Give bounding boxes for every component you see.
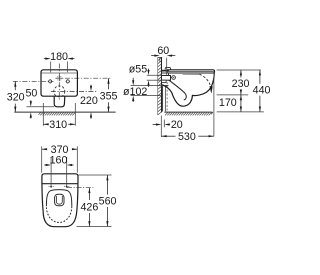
front vertical centerline — [58, 64, 60, 101]
fixing bracket block — [162, 73, 169, 76]
bowl inner hook line — [169, 80, 186, 100]
svg-text:ø55: ø55 — [129, 64, 147, 76]
dim o55 lower ext line — [147, 79, 163, 81]
fixing bracket bar — [162, 70, 170, 72]
dim 20 hatch-edge extension line — [163, 120, 165, 128]
front centerline B (fixing holes level, left) — [13, 80, 54, 82]
front centerline C (outlet circle level) — [51, 90, 98, 92]
svg-text:310: 310 — [49, 119, 67, 131]
seat hinge cap — [165, 68, 170, 70]
top reference ext line — [217, 69, 261, 71]
dim 560 line — [106, 175, 108, 195]
dim o102 lower ext line — [131, 95, 163, 97]
bowl opening oval (solid top) — [46, 190, 71, 207]
wall left face — [157, 58, 159, 116]
dim o55 upper ext line — [147, 74, 163, 76]
front top inlet cross — [56, 75, 63, 81]
dim 60 right arrow — [171, 55, 175, 57]
svg-text:426: 426 — [80, 201, 98, 213]
dim 60 left extension line — [159, 58, 161, 62]
dim 180 left extension line — [50, 62, 52, 73]
outlet shelf line (o102 top) — [162, 85, 168, 87]
dim o102 upper ext line — [131, 85, 164, 87]
outlet pipe outer line — [162, 86, 164, 112]
dim 426 hinge dash-dot ext line — [67, 187, 93, 189]
outlet pipe inner line — [164, 87, 166, 112]
front right fixing hole — [66, 79, 71, 84]
front floor hatch — [39, 112, 76, 115]
dim 50 lower arrow — [30, 116, 32, 118]
dim 180 right arrow — [70, 58, 74, 60]
svg-text:170: 170 — [219, 97, 237, 109]
flush distributor outer — [55, 194, 64, 206]
bowl rim line under seat — [183, 73, 200, 75]
top ext line for 560 — [79, 174, 112, 176]
dim 50 upper arrow — [30, 100, 32, 102]
inlet pipe block (o55) — [162, 76, 171, 81]
front centerline A (top inlet level) — [56, 77, 111, 79]
svg-text:440: 440 — [253, 84, 271, 96]
svg-text:ø102: ø102 — [123, 86, 147, 98]
dim 180 right extension line — [66, 62, 68, 73]
dim 355 line — [108, 78, 110, 89]
top view body outline — [42, 174, 78, 227]
svg-text:20: 20 — [171, 119, 183, 131]
dim 310 left extension line — [42, 103, 44, 126]
front reference ext line (vertical) — [213, 74, 215, 137]
dim 160 right arrow — [71, 164, 73, 166]
bowl outer shell — [163, 73, 215, 106]
seat and lid bar — [167, 70, 215, 73]
svg-text:50: 50 — [25, 88, 37, 100]
svg-text:220: 220 — [80, 95, 98, 107]
front outlet circle (dashed) — [54, 86, 65, 97]
dim 160 left arrow — [44, 164, 46, 166]
front floor line — [14, 111, 115, 113]
bowl opening oval (dashed bottom) — [46, 206, 71, 222]
dim 320 line — [14, 81, 16, 90]
seat swing arrowhead — [209, 86, 212, 94]
svg-text:320: 320 — [7, 92, 25, 104]
svg-text:60: 60 — [157, 45, 169, 57]
fixing bolt circle — [172, 76, 176, 80]
floor reference ext line — [217, 111, 264, 113]
side floor hatch — [165, 112, 213, 115]
dim o55 lower arrow — [148, 85, 150, 87]
bowl-bottom reference ext line — [217, 94, 249, 96]
dim 20 wall-face extension line — [160, 116, 162, 137]
dim 170 line — [240, 95, 242, 112]
dim 50 drain-bottom extension line — [27, 106, 55, 108]
dim 426 line — [88, 188, 90, 200]
front left fixing hole — [48, 79, 53, 84]
seat/lid split line — [167, 70, 214, 72]
dim 220 upper arrow — [90, 85, 92, 87]
dim 440 line — [259, 70, 261, 84]
dim 310 right extension line — [74, 103, 76, 126]
outlet pipe dashed centerline — [166, 82, 168, 111]
flush distributor inner cup — [56, 196, 62, 204]
dim 370 right extension line — [76, 146, 78, 172]
dim 370 left extension line — [41, 146, 43, 172]
svg-text:355: 355 — [100, 90, 118, 102]
dim 370 line and arrows — [42, 148, 47, 150]
seat hinge line — [42, 183, 78, 185]
dim 160 right extension line — [66, 157, 68, 186]
front drain spigot — [54, 96, 65, 107]
front body outline — [41, 70, 77, 96]
svg-text:530: 530 — [178, 131, 196, 143]
dim 180 left arrow — [44, 58, 48, 60]
side floor line — [164, 111, 212, 113]
dim o55 upper arrow — [148, 69, 150, 71]
svg-text:230: 230 — [232, 78, 250, 90]
dim o102 lower arrow — [132, 100, 134, 102]
dim 530 line and arrows — [161, 135, 175, 137]
bottom ext line for 426/560 — [77, 226, 112, 228]
left hinge dot — [50, 186, 52, 188]
dim 160 left extension line — [50, 157, 52, 186]
svg-text:180: 180 — [50, 51, 68, 63]
dim 230 line — [240, 70, 242, 78]
dim 20 left arrow — [153, 124, 157, 126]
right hinge dot — [66, 186, 68, 188]
svg-text:560: 560 — [99, 195, 117, 207]
dim o102 upper arrow — [132, 78, 134, 82]
svg-text:160: 160 — [50, 155, 68, 167]
wall top edge — [158, 57, 162, 59]
dim 60 left arrow — [151, 55, 155, 57]
dim 310 line and arrows — [43, 123, 48, 125]
dim 60 right extension line — [166, 58, 168, 75]
wall right face — [161, 58, 163, 113]
inlet flange step — [162, 80, 167, 82]
wall hatch band — [158, 58, 162, 116]
front body inner top line — [42, 72, 77, 74]
dim 20 right arrow — [169, 124, 170, 126]
dim 220 lower arrow — [90, 117, 92, 119]
seat swing dashed arc — [199, 74, 210, 86]
